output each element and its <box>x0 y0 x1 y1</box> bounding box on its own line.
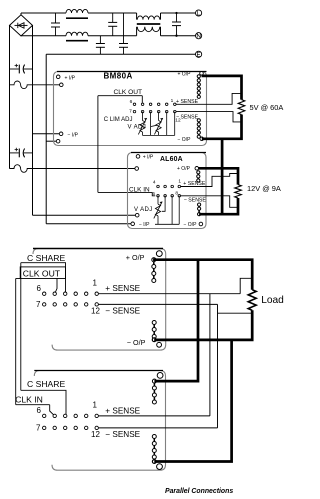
trim network wires (AL60A) <box>155 196 179 225</box>
wire CLK IN bracket <box>152 192 155 195</box>
svg-text:Load: Load <box>261 295 284 306</box>
svg-text:+ O/P: + O/P <box>177 166 191 172</box>
svg-text:1: 1 <box>93 401 98 410</box>
svg-text:+ O/P: + O/P <box>178 71 192 77</box>
thick wire +O/P bus (parallel) <box>153 260 252 290</box>
svg-text:7: 7 <box>36 300 41 309</box>
connector pin grid (AL60A) <box>157 185 181 197</box>
svg-text:V ADJ: V ADJ <box>134 207 153 213</box>
label CLK IN (PSU2) <box>15 395 50 405</box>
module AL60A box <box>128 153 207 229</box>
wire -SENSE (BM80A) with label <box>176 112 242 122</box>
svg-text:+ SENSE: + SENSE <box>105 284 140 293</box>
thick wire +O/P bus (12V) <box>198 168 238 184</box>
svg-text:− SENSE: − SENSE <box>105 430 140 439</box>
pin -O/P (PSU2) <box>153 460 157 464</box>
wire: L rail from bridge to terminal <box>21 13 196 15</box>
output chain + (PSU1) <box>153 260 155 267</box>
capacitor C1 (X-cap after bridge) <box>55 13 57 23</box>
pin -I/P (BM80A) <box>59 132 78 138</box>
capacitor C7 (bulk electrolytic, module 2) <box>10 148 33 158</box>
svg-text:CLK IN: CLK IN <box>129 186 150 193</box>
svg-text:− O/P: − O/P <box>184 222 198 228</box>
pin earth attach (AL60A) with -I/P label <box>131 222 150 228</box>
output terminal chain - (AL60A) <box>198 205 200 209</box>
module BM80A box <box>54 71 207 145</box>
svg-text:− I/P: − I/P <box>68 132 79 138</box>
thick wire -O/P bus (12V) <box>199 198 238 214</box>
label V ADJ (BM80A) <box>128 125 158 131</box>
svg-text:7: 7 <box>129 109 132 115</box>
pin input+ attach (AL60A) <box>135 167 139 171</box>
fuse F1 (module 1 input) <box>10 81 62 89</box>
output terminal chain - (BM80A) <box>198 120 200 124</box>
wire: DC+ bus from bridge <box>9 25 11 168</box>
thick wire common negative link <box>221 139 224 214</box>
trim network wires (BM80A) <box>143 112 175 136</box>
label CLK OUT boxed (PSU1) <box>20 267 65 279</box>
svg-text:+ SENSE: + SENSE <box>105 406 140 415</box>
thick wire -O/P bus (5V) <box>202 115 242 139</box>
svg-text:CLK OUT: CLK OUT <box>114 89 143 96</box>
wire +SENSE (PSU2) with label <box>99 406 210 416</box>
svg-text:BM80A: BM80A <box>104 71 133 80</box>
output terminal chain + (AL60A) <box>197 172 199 176</box>
svg-text:4: 4 <box>153 180 156 186</box>
svg-text:+ I/P: + I/P <box>65 75 76 81</box>
output chain + (PSU2) <box>153 381 155 388</box>
PSU2 corner screw bottom <box>157 464 163 470</box>
PSU1 module outline <box>33 249 166 351</box>
potentiometer V ADJ (AL60A) <box>155 204 160 216</box>
connector pin grid (PSU1) <box>43 292 99 306</box>
svg-text:1: 1 <box>171 98 174 104</box>
svg-text:6: 6 <box>37 284 42 293</box>
potentiometer V ADJ (BM80A) <box>156 121 161 133</box>
pin +O/P (BM80A) <box>178 71 204 77</box>
thick wire +O/P bus (5V) <box>202 76 242 100</box>
wire C SHARE bracket (PSU2) <box>21 390 66 416</box>
pin +I/P (BM80A) <box>56 75 75 81</box>
pin -I/P attach (AL60A) <box>135 213 139 217</box>
terminal E <box>46 51 202 57</box>
pin +I/P (AL60A) <box>136 155 154 161</box>
PSU1 corner screw top <box>156 251 162 257</box>
load resistor R1 (5V @ 60A) <box>238 100 245 115</box>
capacitor C3 (Y-cap N to E) <box>99 36 101 44</box>
pin earth attach (BM80A) <box>56 139 60 143</box>
output chain - (PSU1) <box>153 323 155 330</box>
svg-text:CLK OUT: CLK OUT <box>23 268 61 278</box>
wire: DC- bus from bridge <box>33 25 136 215</box>
svg-text:6: 6 <box>130 99 133 105</box>
transformer L2 (common-mode choke) <box>137 13 161 36</box>
svg-text:12V @ 9A: 12V @ 9A <box>247 184 281 193</box>
wire -SENSE (PSU2) with label <box>99 428 218 439</box>
wire +SENSE tap at load <box>210 278 252 416</box>
wire CLK link PSU1-PSU2 <box>16 279 21 405</box>
svg-text:AL60A: AL60A <box>160 156 183 163</box>
inductor L1 (line choke) <box>66 9 88 40</box>
connector pin grid (PSU2) <box>43 414 99 429</box>
wire -SENSE tap at load <box>218 304 253 428</box>
terminal L <box>196 10 202 16</box>
svg-text:6: 6 <box>37 406 42 415</box>
potentiometer C LIM ADJ <box>140 121 145 133</box>
svg-text:− O/P: − O/P <box>127 338 146 347</box>
pin input+ attach (BM80A) <box>60 83 64 87</box>
svg-text:5V @ 60A: 5V @ 60A <box>250 103 284 112</box>
wire: N rail from bridge to terminal <box>21 35 196 37</box>
PSU1 corner screw bottom <box>157 342 162 347</box>
wire C SHARE bracket (PSU1) <box>21 263 66 294</box>
svg-text:5: 5 <box>152 191 155 197</box>
wire CLK IN to pin (PSU2) <box>50 405 55 416</box>
capacitor C5 (X-cap at terminals) <box>172 12 181 37</box>
svg-text:− SENSE: − SENSE <box>105 306 140 315</box>
pin +O/P (AL60A) <box>177 166 199 172</box>
thick wire -O/P bus (parallel) <box>154 310 252 340</box>
pin +O/P (PSU2) <box>153 379 157 383</box>
svg-text:C SHARE: C SHARE <box>27 379 65 389</box>
wire -SENSE (PSU1) with label <box>99 304 218 315</box>
capacitor C2 (X-cap) <box>112 13 114 22</box>
svg-text:8: 8 <box>175 190 178 196</box>
svg-text:12: 12 <box>91 306 100 315</box>
wire CLK OUT to CLK IN <box>98 96 152 193</box>
svg-text:− I/P: − I/P <box>139 222 150 228</box>
svg-text:CLK IN: CLK IN <box>15 395 43 405</box>
svg-text:Parallel Connections: Parallel Connections <box>165 488 233 495</box>
load resistor R3 (Load) <box>248 290 256 311</box>
capacitor C6 (bulk electrolytic, module 1) <box>10 64 33 74</box>
svg-text:C SHARE: C SHARE <box>27 253 65 263</box>
PSU2 corner screw top <box>157 373 163 379</box>
wire +SENSE (BM80A) with label <box>176 93 242 105</box>
svg-text:− SENSE: − SENSE <box>184 198 207 204</box>
thick wire -O/P riser PSU2 <box>154 340 231 462</box>
svg-text:1: 1 <box>93 278 98 287</box>
pin -O/P (PSU1) <box>152 338 156 342</box>
connector pin grid (BM80A) <box>133 103 176 113</box>
svg-text:− O/P: − O/P <box>178 137 192 143</box>
pin -O/P (AL60A) <box>184 222 203 228</box>
wire C SHARE link PSU1-PSU2 <box>20 263 22 391</box>
wire: earth riser <box>46 54 131 224</box>
svg-text:C LIM ADJ: C LIM ADJ <box>104 117 133 123</box>
load resistor R2 (12V @ 9A) <box>235 185 242 198</box>
capacitor C4 (Y-cap L to E) <box>123 13 125 44</box>
svg-text:V ADJ: V ADJ <box>128 125 147 131</box>
svg-text:7: 7 <box>36 423 41 432</box>
output chain - (PSU2) <box>153 437 155 444</box>
thick wire +O/P riser PSU2 <box>154 260 198 381</box>
pin +O/P (PSU1) <box>152 258 156 262</box>
wire -SENSE (AL60A) with label <box>181 196 238 208</box>
svg-text:− SENSE: − SENSE <box>176 115 199 121</box>
output terminal chain + (BM80A) <box>198 76 200 80</box>
svg-text:1: 1 <box>178 178 181 184</box>
fuse F2 (module 2 input) <box>10 165 137 173</box>
PSU2 module outline <box>34 371 165 471</box>
svg-text:12: 12 <box>91 430 100 439</box>
terminal N <box>196 33 202 39</box>
svg-text:+ O/P: + O/P <box>126 253 145 262</box>
wire CLK OUT to pin (PSU1) <box>55 279 57 294</box>
bridge rectifier BR1 <box>10 15 33 36</box>
wire +SENSE (AL60A) with label <box>181 174 238 188</box>
wire CLK OUT bracket <box>98 96 142 103</box>
wire +SENSE (PSU1) with label <box>99 284 241 294</box>
svg-text:+ I/P: + I/P <box>143 155 154 161</box>
pin -O/P (BM80A) <box>178 137 204 143</box>
